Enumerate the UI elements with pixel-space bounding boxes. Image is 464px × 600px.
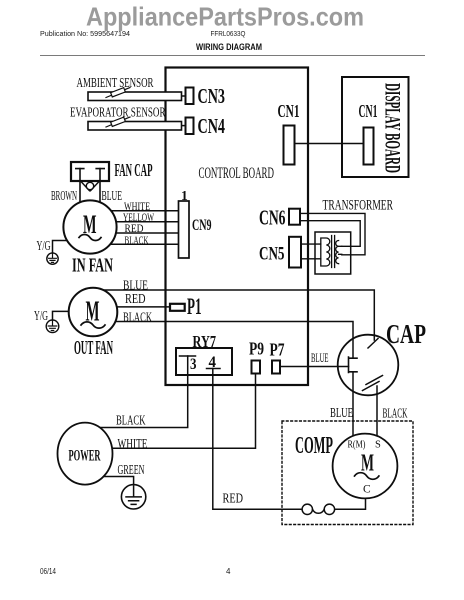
svg-text:DISPLAY BOARD: DISPLAY BOARD	[381, 83, 406, 173]
transformer primary coil	[321, 238, 330, 266]
CAP bottom terminal slant marks	[363, 376, 383, 391]
CAP top terminal tick	[368, 339, 378, 349]
wire: in fan yellow to CN9	[100, 221, 179, 223]
connector CN5	[289, 237, 301, 268]
out fan tilde	[81, 322, 105, 328]
svg-text:CN6: CN6	[259, 206, 286, 230]
svg-text:AMBIENT SENSOR: AMBIENT SENSOR	[77, 75, 154, 90]
compressor COMP circle	[333, 434, 398, 499]
wire: fan cap left stem (brown)	[79, 169, 81, 204]
connector P9	[252, 361, 261, 374]
overload protector circle 1	[302, 504, 312, 514]
wire: P9 to POWER white	[100, 374, 256, 449]
CAP left terminal bracket	[349, 357, 358, 373]
svg-text:FAN CAP: FAN CAP	[115, 160, 153, 180]
svg-text:P7: P7	[270, 340, 285, 360]
svg-text:4: 4	[209, 354, 217, 371]
svg-text:WHITE: WHITE	[118, 436, 148, 451]
svg-text:CN1: CN1	[278, 101, 300, 121]
connector CN6	[289, 209, 300, 225]
svg-text:RED: RED	[223, 491, 244, 506]
relay pin 4 underline	[207, 368, 221, 370]
svg-text:M: M	[83, 209, 97, 239]
svg-text:WIRING DIAGRAM: WIRING DIAGRAM	[196, 42, 262, 52]
connector CN4	[186, 118, 194, 135]
POWER circle	[58, 423, 113, 485]
transformer box	[315, 232, 351, 274]
wire: relay pin 4 red to overload	[213, 369, 304, 510]
svg-text:M: M	[361, 450, 374, 477]
svg-text:CAP: CAP	[386, 318, 426, 349]
evaporator sensor body	[88, 122, 182, 131]
svg-text:CONTROL BOARD: CONTROL BOARD	[199, 165, 275, 182]
wire: CN6 pin1 to transformer secondary	[299, 213, 365, 254]
wire: evaporator sensor to CN4	[181, 125, 186, 127]
overload protector circle 2	[324, 504, 334, 514]
svg-text:TRANSFORMER: TRANSFORMER	[323, 198, 394, 214]
svg-text:CN3: CN3	[198, 84, 226, 108]
svg-text:POWER: POWER	[69, 448, 101, 465]
svg-text:BLACK: BLACK	[383, 406, 408, 421]
svg-text:P1: P1	[187, 294, 202, 319]
svg-text:Y/G: Y/G	[34, 308, 48, 323]
svg-text:Publication No: 5995647194: Publication No: 5995647194	[40, 29, 130, 38]
overload sag wire	[313, 509, 325, 513]
wire: fan cap right stem (blue)	[99, 169, 101, 204]
svg-text:06/14: 06/14	[40, 567, 56, 576]
motor IN FAN circle	[63, 200, 116, 253]
wire: out fan blue to CAP top	[100, 290, 374, 340]
ambient sensor body	[88, 92, 182, 101]
title rule	[40, 55, 425, 57]
transformer core	[332, 236, 335, 268]
COMP dashed box	[282, 421, 413, 525]
wire: CN5 pin2 to transformer primary	[300, 258, 321, 260]
svg-text:BLUE: BLUE	[330, 405, 353, 420]
svg-text:FFRL0633Q: FFRL0633Q	[211, 29, 246, 38]
svg-text:P9: P9	[249, 339, 264, 359]
svg-text:CN4: CN4	[198, 114, 226, 138]
ground (out fan Y/G)	[46, 320, 59, 333]
svg-text:BLACK: BLACK	[125, 233, 149, 247]
wire: in fan Y/G ground lead	[53, 241, 71, 255]
wire: P7 blue to CAP	[280, 366, 349, 368]
svg-text:C: C	[363, 484, 371, 496]
svg-text:BROWN: BROWN	[51, 188, 77, 203]
svg-text:M: M	[86, 297, 100, 328]
relay RY7 box	[176, 348, 232, 375]
wire: CN5 pin1 to transformer primary	[300, 243, 321, 245]
svg-text:CN1: CN1	[359, 101, 378, 121]
svg-text:EVAPORATOR SENSOR: EVAPORATOR SENSOR	[70, 106, 166, 121]
svg-text:3: 3	[190, 356, 197, 373]
wire: CN1 to display board CN1	[294, 143, 364, 145]
wire: in fan white to CN9	[100, 210, 179, 212]
motor OUT FAN circle	[69, 288, 118, 337]
fan cap V mark	[81, 182, 99, 191]
fan cap plates	[76, 168, 104, 170]
wire: POWER green to ground	[100, 477, 134, 487]
display board box	[342, 77, 409, 177]
wire: CN6 pin2 to transformer secondary	[299, 221, 360, 247]
connector CN1 (display board)	[364, 128, 374, 165]
evaporator sensor thermistor mark	[106, 117, 130, 127]
svg-text:IN FAN: IN FAN	[72, 256, 113, 277]
fan cap V circle	[86, 182, 93, 189]
wire: relay pin 3 to POWER black	[96, 356, 188, 428]
control board box	[166, 68, 309, 386]
svg-text:BLUE: BLUE	[102, 188, 123, 203]
svg-text:1: 1	[181, 188, 188, 203]
ground (power green)	[121, 485, 145, 509]
ambient sensor thermistor mark	[106, 88, 130, 98]
svg-text:CN9: CN9	[192, 217, 212, 234]
svg-text:Y/G: Y/G	[37, 238, 51, 253]
wire: out fan Y/G ground lead	[53, 311, 71, 320]
wire: overload to COMP C	[332, 498, 366, 509]
ground (in fan Y/G)	[47, 253, 58, 264]
transformer secondary coil	[336, 241, 342, 264]
comp tilde	[355, 473, 379, 480]
in fan tilde	[79, 235, 101, 241]
svg-text:S: S	[375, 440, 381, 451]
connector P7	[272, 361, 280, 374]
svg-text:COMP: COMP	[295, 432, 333, 459]
svg-text:OUT FAN: OUT FAN	[74, 338, 113, 359]
svg-text:CN5: CN5	[259, 244, 285, 265]
svg-text:AppliancePartsPros.com: AppliancePartsPros.com	[86, 2, 364, 32]
relay pin 3 bar	[180, 355, 196, 357]
svg-text:BLUE: BLUE	[311, 351, 329, 365]
svg-text:GREEN: GREEN	[118, 462, 145, 477]
wire: out fan black to CAP left	[100, 322, 353, 359]
wire: in fan black to CN9	[100, 243, 179, 245]
svg-text:BLACK: BLACK	[123, 310, 152, 325]
svg-text:BLACK: BLACK	[116, 413, 146, 428]
wire: CAP black down to COMP S	[376, 386, 378, 437]
connector CN3	[186, 88, 194, 105]
wire: CAP blue down to COMP R	[352, 372, 354, 437]
connector CN1 (control board)	[284, 126, 295, 165]
svg-text:4: 4	[226, 567, 231, 576]
connector P1	[170, 304, 185, 311]
connector CN9	[179, 201, 190, 258]
wire: out fan red to P1	[100, 306, 172, 308]
wire: in fan red to CN9	[100, 232, 179, 234]
fan cap box	[71, 162, 109, 181]
wire: ambient sensor to CN3	[181, 95, 186, 97]
capacitor CAP circle	[338, 335, 399, 396]
svg-text:RED: RED	[125, 291, 146, 306]
svg-text:RY7: RY7	[193, 332, 217, 351]
